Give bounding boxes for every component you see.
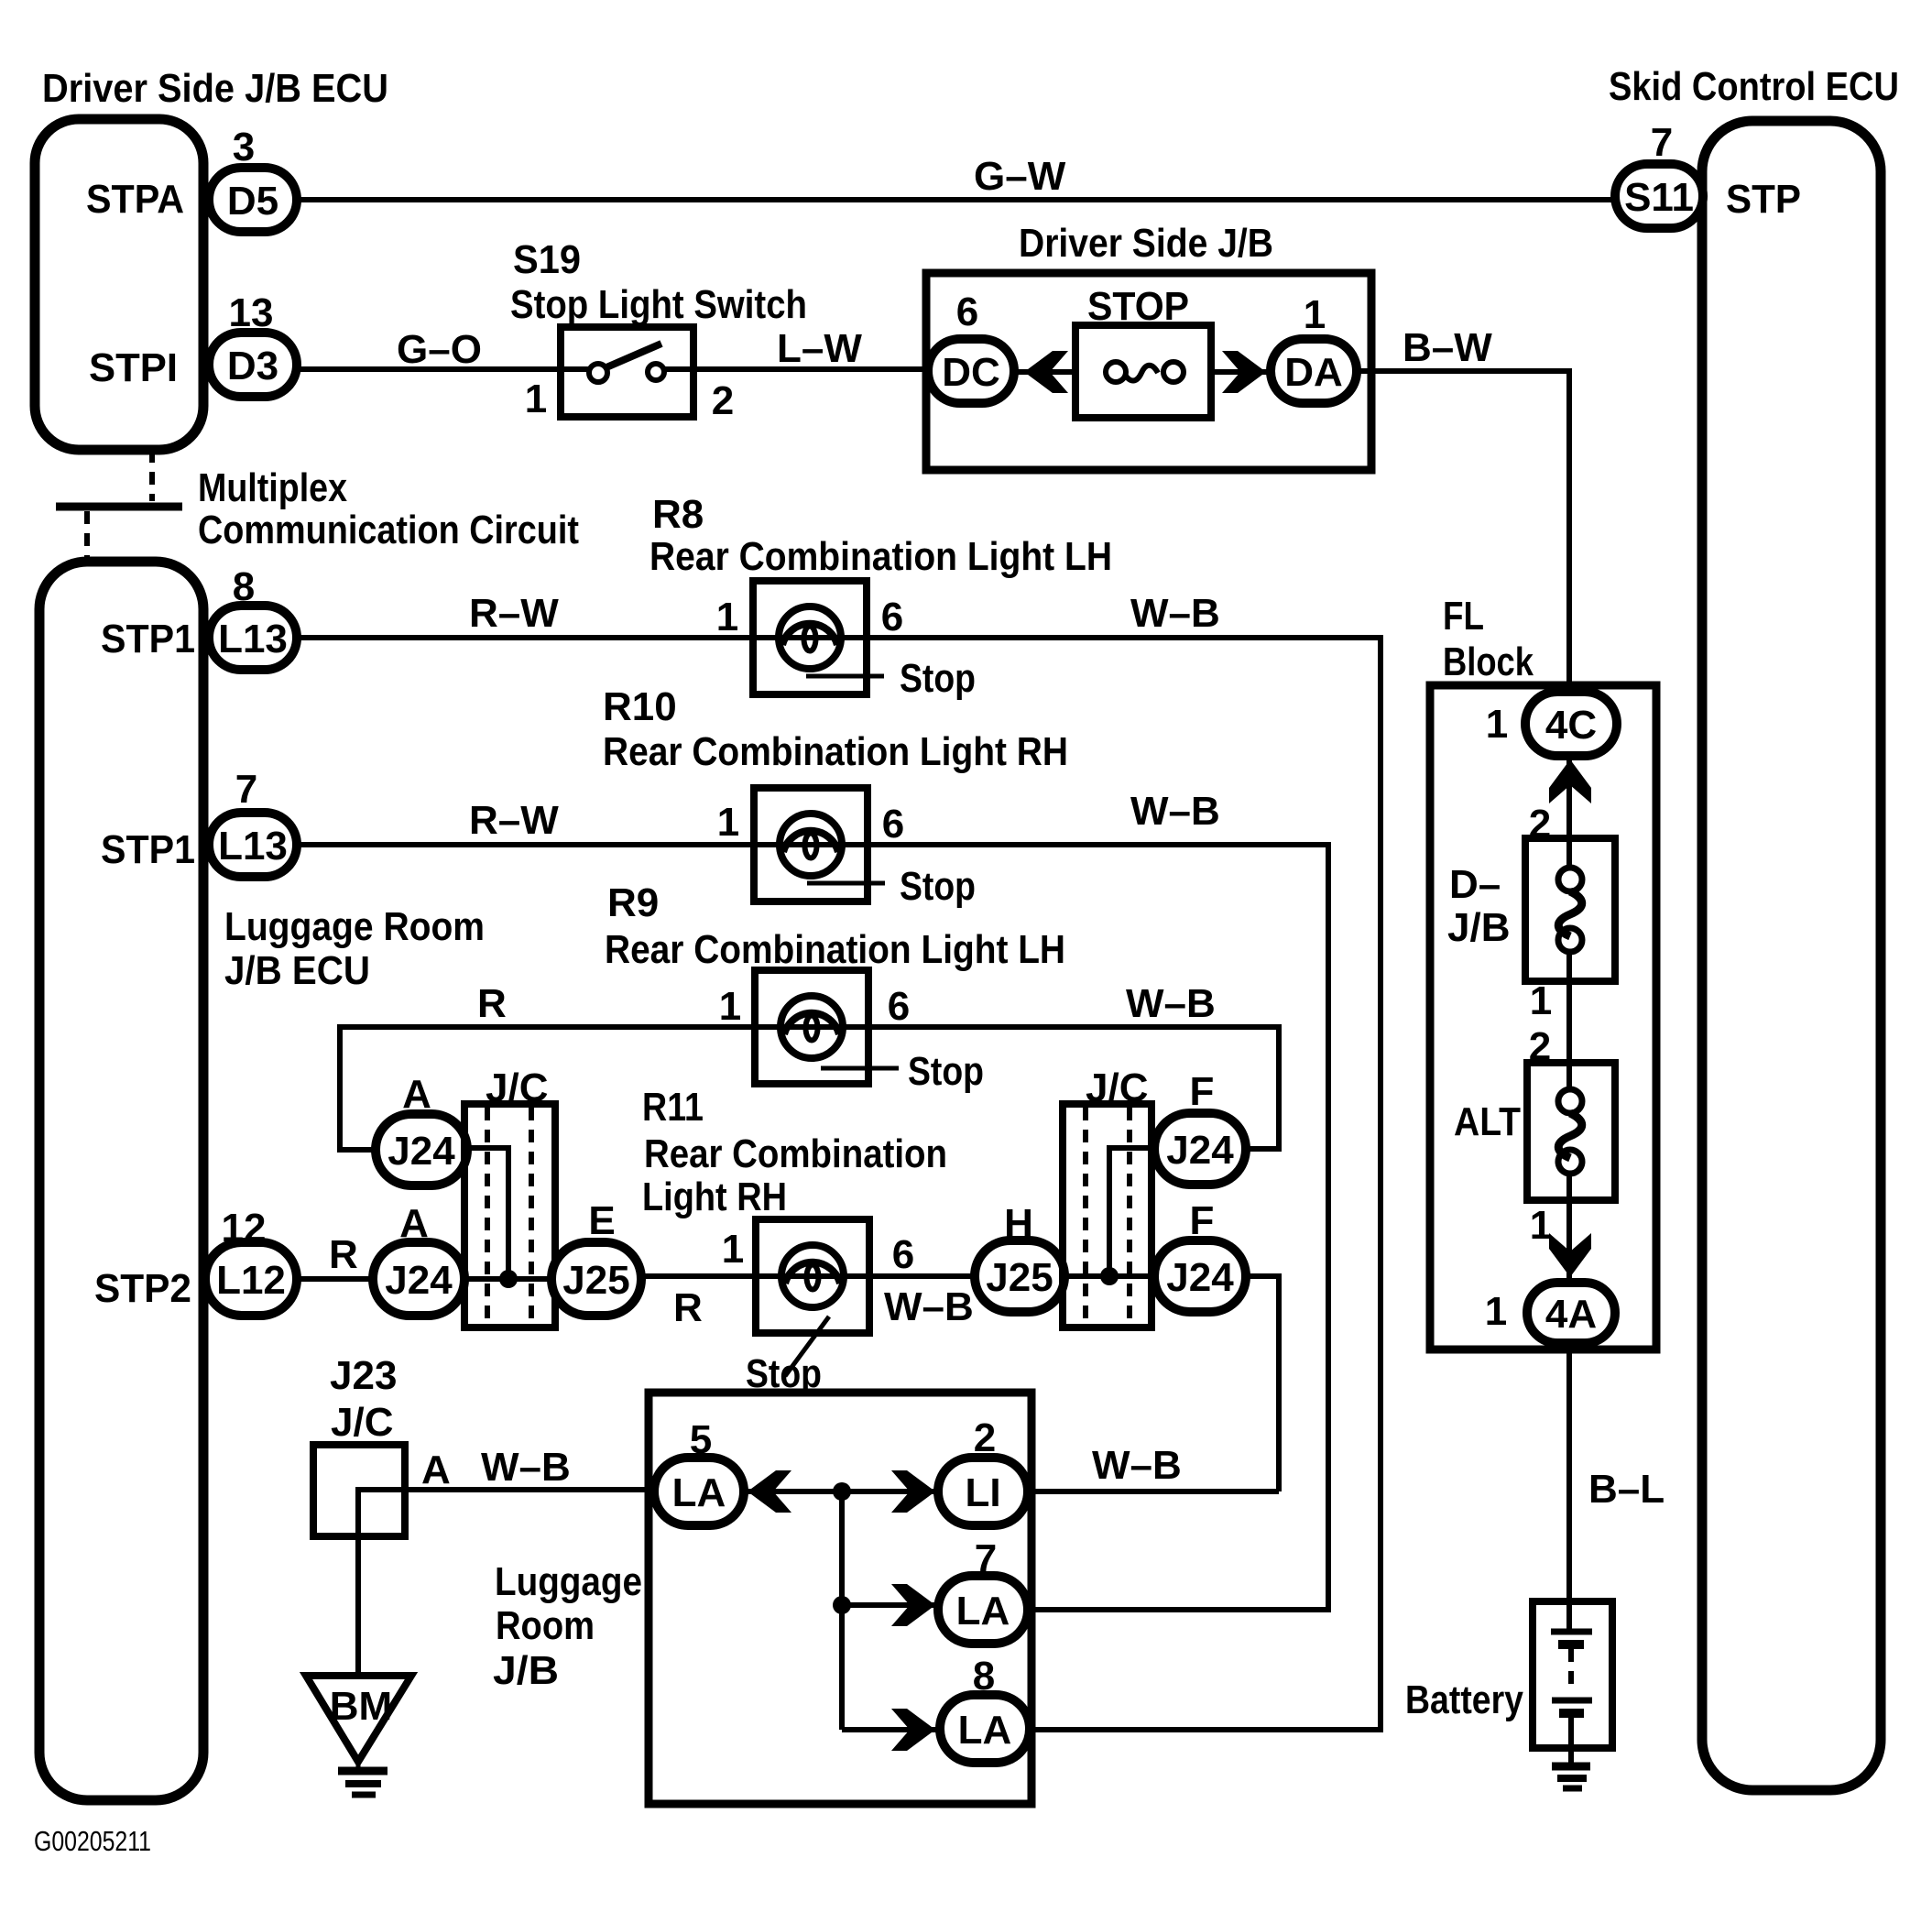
svg-text:G–O: G–O	[397, 327, 482, 372]
wire B-W DA down to FL block 4C	[1355, 371, 1569, 694]
wire G-W D5 to S11	[297, 197, 1618, 202]
wire LA5 to LI with junction	[740, 1489, 942, 1494]
svg-text:J25: J25	[562, 1258, 629, 1303]
svg-text:7: 7	[975, 1536, 997, 1581]
connector L13 pin 8	[209, 606, 297, 670]
arrow into DA	[1222, 351, 1266, 393]
wire A W-B J23 to luggage room J/B	[405, 1487, 652, 1492]
svg-text:D3: D3	[227, 344, 278, 388]
junction connector J/C right box	[1063, 1104, 1152, 1327]
svg-text:1: 1	[717, 800, 739, 845]
wire through J/C left	[464, 1276, 555, 1282]
svg-text:Rear Combination: Rear Combination	[644, 1131, 947, 1176]
wire inside J/B DC to fuse	[1011, 369, 1079, 375]
internal link left J/C	[468, 1148, 508, 1279]
svg-text:L12: L12	[216, 1258, 286, 1303]
svg-text:6: 6	[881, 595, 903, 639]
wire W-B R9 to J24 F upper	[865, 1027, 1279, 1149]
wire W-B R8 to LA8 riser	[863, 638, 1381, 1730]
ECU U2 Luggage Room J/B ECU	[39, 562, 203, 1800]
svg-text:STP2: STP2	[94, 1266, 191, 1311]
svg-text:7: 7	[235, 767, 257, 812]
fuse STOP	[1075, 325, 1211, 418]
junction connector J/C left box	[464, 1104, 555, 1327]
svg-text:G00205211: G00205211	[34, 1825, 151, 1857]
svg-text:6: 6	[956, 290, 978, 334]
svg-text:Driver Side J/B: Driver Side J/B	[1019, 221, 1273, 266]
connector 4A pin 1	[1527, 1283, 1615, 1343]
arrow up to 4C	[1549, 759, 1591, 803]
svg-text:Rear Combination Light LH: Rear Combination Light LH	[649, 534, 1112, 579]
svg-text:DC: DC	[942, 350, 1000, 395]
svg-text:B–L: B–L	[1588, 1467, 1665, 1512]
svg-text:R11: R11	[642, 1085, 704, 1130]
svg-text:DA: DA	[1284, 350, 1343, 395]
ground BM triangle	[306, 1676, 411, 1762]
svg-text:2: 2	[974, 1415, 996, 1460]
wire R down-left loop to J24 A upper	[340, 1027, 867, 1150]
arrow into LA8	[891, 1709, 935, 1751]
svg-text:Skid Control ECU: Skid Control ECU	[1609, 64, 1899, 109]
svg-text:FL: FL	[1443, 594, 1484, 639]
wire W-B R11 to J25 H	[866, 1273, 978, 1279]
svg-text:LA: LA	[956, 1589, 1010, 1633]
wire B-L 4A to battery	[1566, 1343, 1572, 1632]
connector S11 pin 7	[1615, 164, 1703, 228]
wire through J/C right	[1061, 1273, 1158, 1279]
svg-text:1: 1	[1485, 1289, 1507, 1334]
svg-text:J/B ECU: J/B ECU	[224, 948, 370, 993]
node junction dot upper	[833, 1482, 851, 1501]
svg-text:R–W: R–W	[469, 591, 559, 636]
svg-text:Stop: Stop	[900, 656, 976, 701]
svg-text:1: 1	[722, 1227, 744, 1272]
svg-text:Stop: Stop	[900, 864, 976, 909]
ECU Skid Control ECU	[1702, 121, 1881, 1790]
svg-text:STP: STP	[1726, 177, 1801, 222]
connector J24 pin F lower	[1154, 1240, 1246, 1312]
svg-text:W–B: W–B	[884, 1284, 974, 1329]
svg-text:A: A	[402, 1072, 431, 1117]
connector L12 pin 12	[205, 1242, 297, 1316]
svg-text:L13: L13	[218, 617, 288, 661]
svg-text:J25: J25	[986, 1255, 1053, 1300]
wire inside J/B fuse to DA	[1207, 369, 1275, 375]
svg-text:L13: L13	[218, 824, 288, 869]
svg-text:Multiplex: Multiplex	[198, 465, 347, 510]
connector J24 pin A lower	[373, 1242, 464, 1316]
svg-text:W–B: W–B	[1130, 789, 1220, 834]
svg-text:A: A	[421, 1448, 451, 1492]
connector D5 pin 3	[209, 168, 297, 232]
connector LA pin 5	[654, 1458, 744, 1525]
connector DA pin 1	[1271, 339, 1357, 403]
connector LA pin 8	[940, 1695, 1030, 1763]
arrow into DC	[1024, 351, 1068, 393]
svg-text:J/B: J/B	[1447, 905, 1510, 950]
svg-text:6: 6	[888, 984, 910, 1029]
svg-text:STPA: STPA	[86, 177, 184, 222]
svg-text:1: 1	[719, 984, 741, 1029]
svg-text:R8: R8	[652, 492, 704, 537]
svg-text:ALT: ALT	[1454, 1099, 1521, 1144]
svg-text:H: H	[1004, 1201, 1033, 1246]
svg-text:W–B: W–B	[481, 1445, 571, 1490]
svg-text:B–W: B–W	[1403, 325, 1492, 370]
svg-text:S11: S11	[1624, 175, 1694, 220]
svg-text:Stop: Stop	[908, 1049, 984, 1094]
arrow into LA5	[748, 1470, 791, 1513]
svg-text:1: 1	[1530, 978, 1552, 1023]
svg-text:1: 1	[716, 595, 738, 639]
svg-text:Stop Light Switch: Stop Light Switch	[510, 282, 807, 327]
wire J23 down to BM ground	[355, 1536, 361, 1676]
svg-text:1: 1	[525, 377, 547, 421]
svg-text:Battery: Battery	[1405, 1677, 1523, 1722]
svg-text:G–W: G–W	[974, 154, 1066, 199]
svg-text:4C: 4C	[1545, 703, 1597, 748]
connector L13 pin 7	[209, 813, 297, 877]
svg-text:LA: LA	[958, 1708, 1012, 1753]
svg-text:Communication Circuit: Communication Circuit	[198, 508, 579, 552]
svg-text:L–W: L–W	[777, 326, 862, 371]
svg-text:W–B: W–B	[1126, 981, 1216, 1026]
svg-text:J/B: J/B	[493, 1648, 559, 1693]
svg-text:W–B: W–B	[1092, 1443, 1182, 1488]
arrow into LA7	[891, 1584, 935, 1626]
arrow down to 4A	[1549, 1233, 1591, 1277]
svg-text:STP1: STP1	[101, 827, 195, 872]
svg-text:1: 1	[1530, 1203, 1552, 1248]
node junction dot lower	[833, 1596, 851, 1614]
svg-text:W–B: W–B	[1130, 591, 1220, 636]
svg-text:6: 6	[892, 1232, 914, 1277]
svg-text:Room: Room	[496, 1603, 595, 1648]
wire W-B R10 to LA7 riser	[864, 845, 1328, 1610]
connector J24 pin F upper	[1154, 1113, 1246, 1185]
svg-text:2: 2	[712, 378, 734, 423]
arrow into LI	[891, 1470, 935, 1513]
svg-text:STPI: STPI	[89, 345, 178, 390]
wire R-W L13 to R8	[297, 635, 868, 640]
svg-text:J23: J23	[330, 1353, 397, 1398]
wire tap to LA7	[842, 1602, 942, 1608]
connector J24 pin A upper	[376, 1114, 467, 1185]
wire tap to LA8	[842, 1727, 944, 1732]
svg-text:R10: R10	[603, 684, 677, 729]
connector J25 pin E	[551, 1242, 641, 1316]
connector J25 pin H	[975, 1240, 1064, 1312]
svg-text:LI: LI	[965, 1470, 1000, 1515]
svg-text:5: 5	[690, 1417, 712, 1462]
ground below battery	[1552, 1763, 1590, 1771]
svg-text:Luggage: Luggage	[495, 1559, 642, 1604]
connector LI pin 2	[938, 1458, 1028, 1525]
wire W-B LI to J24 F riser	[1026, 1489, 1279, 1494]
svg-text:7: 7	[1651, 120, 1673, 165]
connector D3 pin 13	[209, 333, 297, 397]
Luggage Room J/B box	[649, 1393, 1031, 1804]
svg-text:STOP: STOP	[1087, 284, 1189, 329]
svg-text:1: 1	[1304, 292, 1326, 337]
wire through FL block	[1566, 755, 1572, 867]
multiplex communication circuit symbol	[149, 450, 155, 501]
svg-text:R: R	[673, 1285, 703, 1330]
svg-text:LA: LA	[672, 1470, 726, 1515]
node junction dot left J/C	[499, 1270, 518, 1288]
svg-text:A: A	[399, 1201, 429, 1246]
svg-text:BM: BM	[330, 1684, 392, 1729]
svg-text:8: 8	[973, 1654, 995, 1699]
svg-text:F: F	[1190, 1198, 1215, 1243]
svg-text:D–: D–	[1449, 862, 1501, 907]
wire J24 F lower down to LI	[1242, 1276, 1279, 1491]
wire L-W switch to Driver Side J/B	[664, 366, 929, 372]
svg-text:Driver Side J/B ECU: Driver Side J/B ECU	[42, 66, 388, 111]
wire R L12 to J24 A	[297, 1276, 379, 1282]
wire junction down-tap	[839, 1491, 845, 1730]
svg-text:13: 13	[229, 290, 274, 335]
connector DC pin 6	[928, 339, 1014, 403]
svg-text:Luggage Room: Luggage Room	[224, 904, 485, 949]
svg-text:J/C: J/C	[331, 1400, 393, 1445]
svg-text:Rear Combination Light RH: Rear Combination Light RH	[603, 729, 1068, 774]
svg-text:6: 6	[882, 802, 904, 847]
svg-text:STP1: STP1	[101, 617, 195, 661]
svg-text:Light RH: Light RH	[642, 1175, 787, 1219]
svg-text:1: 1	[1486, 702, 1508, 747]
svg-text:4A: 4A	[1545, 1292, 1597, 1337]
svg-text:R9: R9	[607, 880, 659, 925]
svg-text:Rear Combination Light LH: Rear Combination Light LH	[605, 927, 1065, 972]
svg-text:Block: Block	[1443, 639, 1534, 684]
svg-text:R: R	[477, 981, 507, 1026]
svg-text:R: R	[329, 1232, 358, 1277]
connector LA pin 7	[938, 1576, 1028, 1644]
svg-text:8: 8	[233, 564, 255, 609]
svg-text:J24: J24	[385, 1258, 453, 1303]
connector 4C pin 1	[1525, 692, 1617, 756]
svg-text:12: 12	[222, 1206, 267, 1251]
svg-text:S19: S19	[513, 237, 581, 282]
Driver Side J/B box	[926, 273, 1371, 470]
ECU U1 Driver Side J/B ECU	[35, 119, 203, 450]
svg-text:D5: D5	[227, 179, 278, 224]
svg-text:J24: J24	[387, 1129, 455, 1174]
wire R-W L13 to R10	[297, 842, 869, 847]
svg-text:R–W: R–W	[469, 798, 559, 843]
svg-text:E: E	[588, 1198, 615, 1243]
wire R J25 to R11	[639, 1273, 978, 1279]
svg-text:3: 3	[233, 125, 255, 169]
wire G-O D3 to switch	[297, 366, 594, 372]
svg-text:F: F	[1190, 1069, 1215, 1114]
node junction dot right J/C	[1100, 1267, 1119, 1285]
svg-text:J24: J24	[1166, 1255, 1234, 1300]
internal link right J/C	[1109, 1148, 1156, 1276]
svg-text:J24: J24	[1166, 1128, 1234, 1173]
